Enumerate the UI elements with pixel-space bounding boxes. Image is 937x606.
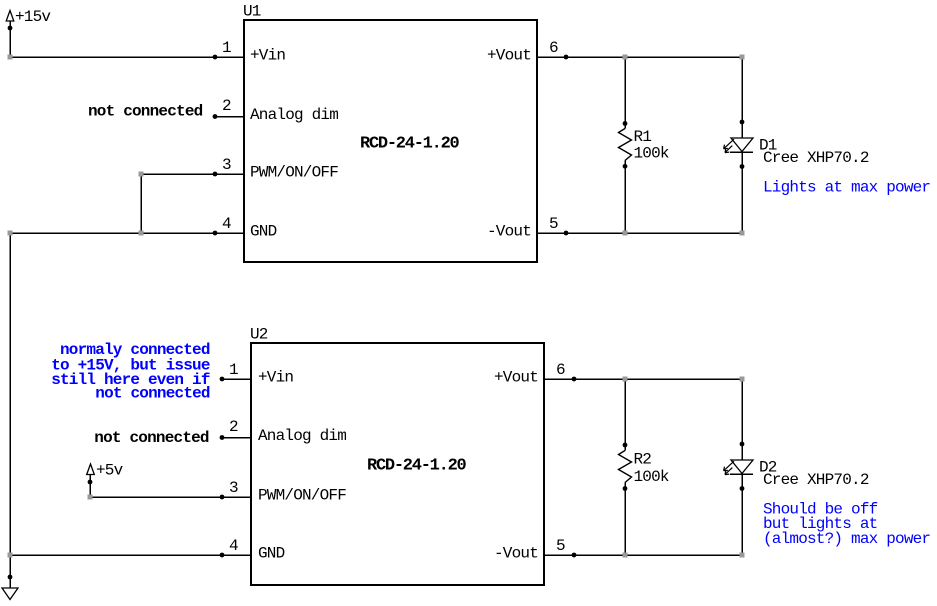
svg-text:(almost?) max power: (almost?) max power [763, 530, 930, 548]
wire junction [740, 55, 745, 60]
svg-text:+Vout: +Vout [494, 369, 538, 387]
wire U2 pin 6 to LED branch [574, 378, 742, 380]
svg-text:-Vout: -Vout [494, 545, 538, 563]
pin 4 GND (U1) [213, 215, 277, 241]
note Should be off... (blue, 3 lines) [763, 501, 930, 548]
ground symbol [2, 555, 18, 600]
svg-text:100k: 100k [634, 145, 669, 163]
wire junction [139, 231, 144, 236]
pin 5 -Vout (U1) [487, 215, 568, 241]
wire GND rail to U1 pin 4 [10, 232, 215, 234]
svg-text:RCD-24-1.20: RCD-24-1.20 [367, 457, 467, 476]
svg-text:PWM/ON/OFF: PWM/ON/OFF [250, 164, 338, 182]
svg-text:2: 2 [229, 418, 238, 436]
resistor R2 [619, 379, 632, 555]
svg-text:U1: U1 [243, 3, 261, 21]
svg-text:+15v: +15v [15, 8, 51, 26]
wire U1 pin 6 to LED branch [566, 56, 742, 58]
wire U2 pin 5 to LED branch bottom [574, 554, 742, 556]
svg-text:GND: GND [250, 223, 277, 241]
resistor R1 [619, 57, 632, 233]
wire junction [740, 377, 745, 382]
svg-text:1: 1 [222, 39, 231, 57]
svg-text:GND: GND [258, 545, 285, 563]
svg-text:5: 5 [556, 537, 565, 555]
wire +15v to U1 pin 1 [10, 56, 215, 58]
svg-text:not connected: not connected [95, 384, 210, 402]
svg-text:2: 2 [222, 97, 231, 115]
svg-text:Lights at max power: Lights at max power [763, 179, 930, 197]
svg-text:not connected: not connected [94, 429, 209, 447]
LED D2 [724, 379, 753, 555]
wire junction [740, 553, 745, 558]
wire left GND rail vertical [9, 233, 11, 555]
svg-text:4: 4 [222, 215, 231, 233]
svg-text:PWM/ON/OFF: PWM/ON/OFF [258, 487, 346, 505]
svg-text:+Vin: +Vin [250, 47, 285, 65]
note normaly connected (blue, 4 lines) [51, 341, 210, 402]
wire junction [8, 55, 13, 60]
pin 1 +Vin (U1) [213, 39, 286, 65]
pin 6 +Vout (U2) [494, 361, 576, 387]
wire junction [623, 377, 628, 382]
pin 4 GND (U2) [220, 537, 285, 563]
wire junction [8, 231, 13, 236]
svg-text:+Vout: +Vout [487, 47, 531, 65]
wire corner down to GND net (U1) [140, 174, 142, 233]
svg-text:3: 3 [222, 156, 231, 174]
svg-text:6: 6 [556, 361, 565, 379]
wire GND rail to U2 pin 4 [10, 554, 222, 556]
pin 3 PWM/ON/OFF (U2) [220, 479, 347, 505]
wire +5v to U2 pin 3 [90, 496, 222, 498]
svg-text:100k: 100k [634, 468, 669, 486]
LED D1 [724, 57, 753, 233]
pin 1 +Vin (U2) [220, 361, 294, 387]
wire U1 pin 5 to LED branch bottom [566, 232, 742, 234]
svg-text:+5v: +5v [96, 462, 124, 480]
wire U1 pin 3 to corner [141, 173, 215, 175]
wire junction [623, 55, 628, 60]
svg-text:R2: R2 [634, 451, 652, 469]
pin 2 Analog dim (U2) [220, 418, 347, 445]
svg-text:5: 5 [549, 215, 558, 233]
svg-text:RCD-24-1.20: RCD-24-1.20 [360, 135, 460, 154]
pin 3 PWM/ON/OFF (U1) [213, 156, 339, 182]
svg-text:Analog dim: Analog dim [258, 427, 346, 445]
wire junction [88, 495, 93, 500]
IC U1 body [244, 20, 537, 262]
svg-text:Analog dim: Analog dim [250, 106, 338, 124]
pin 6 +Vout (U1) [487, 39, 568, 65]
svg-text:6: 6 [549, 39, 558, 57]
svg-text:4: 4 [229, 537, 238, 555]
wire junction [8, 553, 13, 558]
svg-text:not connected: not connected [88, 103, 203, 121]
svg-text:Cree XHP70.2: Cree XHP70.2 [763, 471, 869, 489]
svg-text:R1: R1 [634, 128, 652, 146]
wire junction [139, 172, 144, 177]
svg-text:U2: U2 [250, 326, 268, 344]
svg-text:1: 1 [229, 361, 238, 379]
wire junction [740, 231, 745, 236]
wire junction [623, 231, 628, 236]
power symbol +15v [6, 8, 51, 57]
power symbol +5v [87, 462, 124, 498]
svg-text:Cree XHP70.2: Cree XHP70.2 [763, 149, 869, 167]
svg-text:-Vout: -Vout [487, 223, 531, 241]
IC U2 body [251, 343, 544, 585]
svg-text:3: 3 [229, 479, 238, 497]
wire junction [623, 553, 628, 558]
svg-text:+Vin: +Vin [258, 369, 293, 387]
pin 5 -Vout (U2) [494, 537, 576, 563]
pin 2 Analog dim (U1) [213, 97, 339, 124]
